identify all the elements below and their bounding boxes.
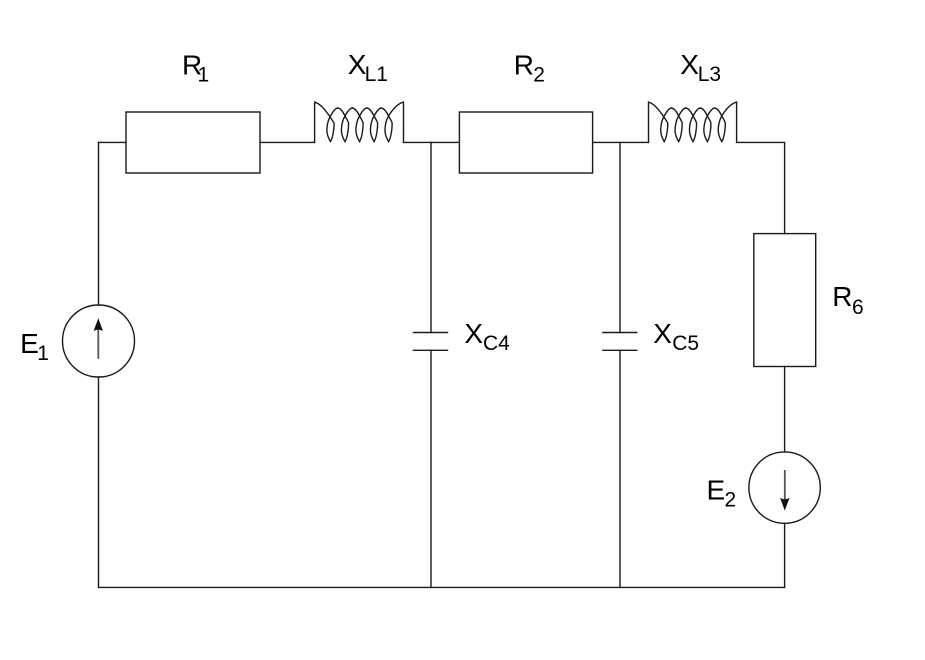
wire E2 to bottom: [784, 523, 786, 587]
arrow E2 head: [780, 498, 789, 511]
node junction wire down to C5: [619, 142, 621, 332]
wire C5 to bottom: [619, 350, 621, 587]
arrow E2 shaft: [784, 470, 786, 500]
resistor R6: [754, 234, 816, 367]
capacitor XC5 bottom plate: [603, 349, 637, 351]
node junction wire down to C4: [430, 142, 432, 332]
bottom wire: [99, 586, 785, 588]
wire R1 to L1: [260, 141, 315, 143]
capacitor XC4 top plate: [414, 332, 448, 334]
resistor R1: [126, 112, 260, 173]
capacitor XC5 top plate: [603, 332, 637, 334]
wire R2 to L3: [593, 141, 649, 143]
wire E1 top to corner: [98, 142, 100, 305]
capacitor XC4 bottom plate: [414, 349, 448, 351]
wire L1 to R2: [404, 141, 460, 143]
wire C4 to bottom: [430, 350, 432, 587]
inductor XL3: [649, 102, 737, 142]
wire R6 to E2: [784, 367, 786, 453]
wire L3 to top-right corner down to R6: [737, 142, 785, 233]
arrow E1 shaft: [97, 330, 99, 359]
inductor XL1: [315, 102, 404, 142]
arrow E1 head: [94, 318, 103, 331]
source E1 circle: [63, 305, 135, 377]
wire top-left horizontal: [99, 141, 127, 143]
wire E1 bottom up: [98, 377, 100, 587]
resistor R2: [459, 112, 592, 173]
source E2 circle: [749, 452, 820, 523]
